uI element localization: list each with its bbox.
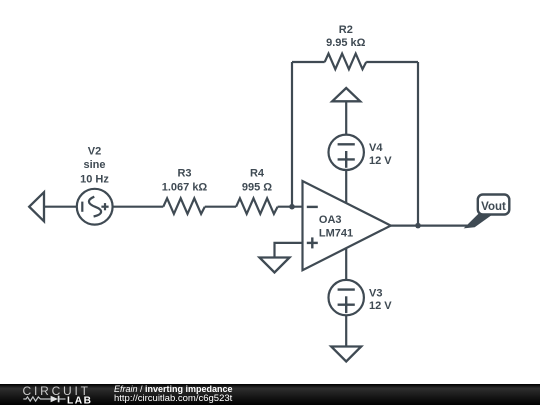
svg-text:1.067 kΩ: 1.067 kΩ	[162, 182, 208, 194]
wire non-inverting input to ground	[275, 243, 303, 258]
wire V3 to ground	[345, 315, 347, 346]
wire V4 to op-amp top edge	[345, 170, 347, 203]
label OA3 LM741	[319, 214, 353, 240]
ground (V3 negative)	[331, 347, 361, 362]
label R2 9.95 kOhm	[326, 24, 366, 49]
svg-text:R3: R3	[177, 167, 191, 179]
wire right vertical down to output	[417, 62, 419, 226]
voltage source V4	[329, 135, 364, 170]
label V2 sine 10 Hz	[80, 145, 109, 185]
wire V2 to R3	[113, 206, 164, 208]
Vout flag tail	[465, 214, 493, 228]
footer title Efrain / inverting impedance	[114, 384, 233, 394]
label V3 12 V	[369, 287, 392, 312]
svg-text:9.95 kΩ: 9.95 kΩ	[326, 37, 366, 49]
svg-text:R2: R2	[339, 24, 353, 36]
wire op-amp bottom edge to V3	[345, 248, 347, 280]
label V4 12 V	[369, 142, 392, 167]
svg-text:V4: V4	[369, 142, 383, 154]
junction node at output	[415, 223, 421, 229]
svg-text:10 Hz: 10 Hz	[80, 173, 109, 185]
ground (non-inverting input)	[260, 258, 290, 273]
wire input flag to V2	[44, 206, 77, 208]
svg-text:LAB: LAB	[67, 395, 92, 405]
label R3 1.067 kOhm	[162, 167, 208, 193]
svg-text:V2: V2	[88, 145, 101, 157]
junction node at inverting input	[289, 204, 295, 210]
wire top right segment from R2	[366, 61, 418, 63]
label R4 995 Ohm	[242, 167, 272, 193]
voltage source V3	[329, 280, 364, 315]
wire top left segment to R2	[292, 61, 325, 63]
wire R3 to R4	[205, 206, 236, 208]
resistor R2	[325, 54, 367, 70]
svg-text:OA3: OA3	[319, 214, 342, 226]
op-amp inverting input minus sign	[307, 206, 318, 208]
svg-text:12 V: 12 V	[369, 155, 392, 167]
footer url	[114, 393, 232, 404]
footer bar	[0, 384, 540, 405]
op-amp non-inverting input plus sign	[307, 237, 318, 248]
resistor R3	[163, 198, 205, 214]
power supply arrow (V4 top)	[332, 88, 360, 101]
svg-text:sine: sine	[83, 159, 105, 171]
voltage source V2 (sine)	[77, 189, 113, 225]
CircuitLab logo symbol and LAB	[21, 394, 96, 405]
wire feedback left vertical	[291, 62, 293, 207]
svg-text:Vout: Vout	[481, 201, 506, 213]
svg-text:995 Ω: 995 Ω	[242, 182, 272, 194]
svg-text:R4: R4	[250, 167, 265, 179]
input terminal flag	[29, 192, 44, 221]
resistor R4	[236, 198, 278, 214]
wire arrow stem to V4	[345, 101, 347, 134]
Vout flag box	[478, 195, 510, 215]
svg-text:12 V: 12 V	[369, 300, 392, 312]
op-amp OA3 triangle	[303, 181, 391, 270]
wire R4 to op-amp inverting input	[278, 206, 303, 208]
svg-text:LM741: LM741	[319, 228, 353, 240]
wire op-amp output to Vout	[391, 225, 475, 227]
svg-text:V3: V3	[369, 287, 382, 299]
CircuitLab logo CIRCUIT	[23, 384, 91, 398]
